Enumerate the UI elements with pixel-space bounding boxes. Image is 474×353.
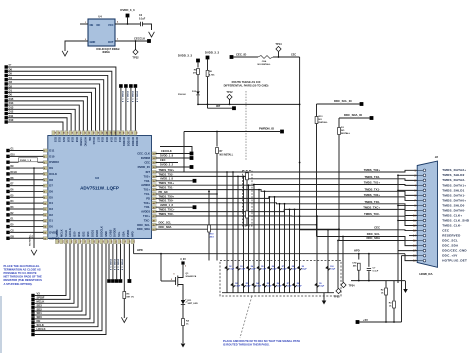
svg-text:PVDD: PVDD — [126, 230, 130, 237]
svg-text:6: 6 — [414, 194, 416, 197]
svg-text:MCLK: MCLK — [59, 229, 63, 237]
svg-text:DSD1: DSD1 — [91, 229, 95, 236]
resistor R8 — [197, 69, 200, 75]
svg-text:AVDD_1_8: AVDD_1_8 — [160, 176, 173, 180]
svg-text:A STUFFING OPTION).: A STUFFING OPTION). — [4, 282, 33, 286]
svg-text:DDC_SDA: DDC_SDA — [159, 225, 172, 229]
svg-text:TMDS_TX1+: TMDS_TX1+ — [364, 181, 381, 185]
svg-text:DVDD_1_8: DVDD_1_8 — [20, 160, 32, 162]
ground (HPD rail) — [403, 289, 408, 293]
svg-text:5: 5 — [44, 174, 45, 176]
svg-text:VCC: VCC — [108, 23, 114, 27]
svg-text:D0: D0 — [9, 93, 13, 97]
resistor R5 887 1% — [123, 244, 125, 292]
svg-text:TMDS_TXC+: TMDS_TXC+ — [159, 208, 175, 212]
svg-text:10: 10 — [44, 203, 46, 205]
svg-text:DDC_SDA: DDC_SDA — [137, 227, 150, 231]
ground (ESD rail) — [323, 293, 325, 298]
svg-text:63: 63 — [115, 240, 117, 242]
wire dashed divider — [245, 91, 247, 160]
svg-text:8: 8 — [44, 192, 45, 194]
svg-text:0.5pF: 0.5pF — [277, 286, 283, 288]
net label CECCLK (IC) — [156, 153, 193, 155]
svg-text:PWRDN_IO: PWRDN_IO — [259, 126, 275, 130]
ground (R1) — [31, 250, 37, 255]
svg-text:D12: D12 — [192, 91, 197, 93]
svg-text:8: 8 — [414, 204, 416, 207]
svg-text:NO INSTALL: NO INSTALL — [258, 63, 272, 66]
svg-text:DVDD2: DVDD2 — [127, 137, 131, 146]
svg-text:DE: DE — [88, 137, 92, 141]
svg-text:R3: R3 — [389, 303, 393, 305]
svg-text:INT: INT — [146, 170, 151, 174]
svg-text:51: 51 — [61, 240, 63, 242]
svg-text:26: 26 — [114, 132, 116, 134]
svg-text:TMDS_TX2+: TMDS_TX2+ — [364, 168, 381, 172]
svg-text:TXC-: TXC- — [144, 218, 150, 222]
svg-text:D10: D10 — [49, 154, 55, 158]
svg-text:1k: 1k — [186, 324, 189, 326]
svg-text:TMDS_DATA1+: TMDS_DATA1+ — [442, 183, 466, 187]
svg-text:TMDS_TX0-: TMDS_TX0- — [159, 199, 174, 203]
svg-text:DVDD5: DVDD5 — [113, 228, 117, 237]
svg-text:DVDD_3_3: DVDD_3_3 — [120, 8, 135, 12]
svg-text:CEC: CEC — [442, 228, 450, 232]
svg-text:0.5pF: 0.5pF — [267, 286, 273, 288]
svg-text:TMDS_TXC-: TMDS_TXC- — [159, 212, 174, 216]
svg-text:D1: D1 — [341, 127, 345, 129]
svg-text:58: 58 — [92, 240, 94, 242]
svg-text:7: 7 — [44, 186, 45, 188]
svg-text:65: 65 — [124, 240, 126, 242]
svg-text:C7: C7 — [373, 268, 377, 270]
svg-text:DDC_SDA_IO: DDC_SDA_IO — [344, 113, 363, 117]
svg-text:ADV7511W_LQFP: ADV7511W_LQFP — [80, 186, 119, 191]
transistor Q1 — [160, 254, 162, 281]
wire U4 pin1 OE — [80, 23, 88, 25]
svg-text:DVDD_1_8: DVDD_1_8 — [160, 154, 174, 158]
svg-text:D19: D19 — [71, 137, 75, 142]
svg-text:0.5pF: 0.5pF — [319, 286, 325, 288]
svg-text:61: 61 — [106, 240, 108, 242]
svg-text:0: 0 — [173, 274, 175, 276]
svg-text:DVDD_1_8: DVDD_1_8 — [113, 259, 115, 271]
resistor R7 NO INSTALL — [216, 132, 218, 147]
svg-text:25: 25 — [118, 132, 120, 134]
svg-text:TP32: TP32 — [132, 56, 139, 60]
svg-text:29: 29 — [101, 132, 103, 134]
svg-text:DCLK: DCLK — [49, 172, 57, 176]
ground (C2) — [149, 32, 155, 37]
wire CEC vertical — [299, 57, 301, 230]
svg-text:DVDD_1_8: DVDD_1_8 — [131, 91, 133, 103]
svg-text:D9: D9 — [49, 166, 53, 170]
svg-text:TMDS_CLK_SHD: TMDS_CLK_SHD — [442, 218, 470, 222]
LED D11 SMT_LED — [182, 291, 184, 300]
net label AVDD_1_8 b — [156, 206, 194, 208]
svg-text:NO INSTALL: NO INSTALL — [29, 233, 32, 246]
svg-text:D5: D5 — [9, 72, 13, 76]
svg-text:RESERVED: RESERVED — [442, 233, 461, 237]
svg-text:INSTALL: INSTALL — [319, 121, 329, 124]
svg-text:+5V: +5V — [363, 318, 368, 322]
svg-text:27: 27 — [109, 132, 111, 134]
svg-text:16: 16 — [413, 245, 416, 248]
svg-text:37: 37 — [153, 172, 155, 174]
svg-text:16: 16 — [44, 238, 46, 240]
svg-text:2: 2 — [44, 156, 45, 158]
svg-text:CH4: CH4 — [262, 60, 267, 63]
test point TP12 — [229, 100, 231, 105]
net label DVDD_2_2 — [156, 166, 191, 168]
svg-text:TMDS_TX0-: TMDS_TX0- — [364, 200, 380, 204]
svg-text:38: 38 — [153, 177, 155, 179]
svg-text:57: 57 — [88, 240, 90, 242]
svg-text:0.5pF: 0.5pF — [282, 269, 288, 271]
svg-text:DDC_SDA: DDC_SDA — [442, 244, 459, 248]
svg-text:33: 33 — [153, 154, 155, 156]
svg-text:0.5pF: 0.5pF — [240, 269, 246, 271]
svg-text:0.5pF: 0.5pF — [330, 269, 336, 271]
svg-text:23: 23 — [126, 132, 128, 134]
resistor R4 1k — [182, 319, 185, 326]
svg-text:45: 45 — [153, 206, 155, 209]
svg-text:SDA: SDA — [122, 231, 126, 237]
svg-text:3_3V: 3_3V — [180, 258, 186, 261]
svg-text:D11: D11 — [9, 114, 14, 118]
svg-text:D12: D12 — [9, 110, 14, 114]
svg-text:TMDS_TX0+: TMDS_TX0+ — [364, 193, 381, 197]
svg-text:1: 1 — [414, 169, 416, 172]
svg-text:AVDD_1_8: AVDD_1_8 — [160, 203, 173, 207]
svg-text:DDC_+5V: DDC_+5V — [442, 254, 457, 258]
svg-text:U3: U3 — [95, 176, 99, 180]
svg-text:0.5pF: 0.5pF — [302, 269, 308, 271]
svg-text:D6: D6 — [49, 189, 53, 193]
wire RESERVED pin stub — [409, 235, 417, 237]
svg-text:DIFFERENTIAL PAIRS (50 TO GND: DIFFERENTIAL PAIRS (50 TO GND) — [224, 84, 269, 88]
svg-text:5: 5 — [414, 189, 416, 192]
svg-text:TMDS_TX1-: TMDS_TX1- — [159, 186, 174, 190]
svg-text:D5: D5 — [49, 195, 53, 199]
svg-text:CECCLK: CECCLK — [161, 149, 172, 153]
svg-text:D10: D10 — [9, 118, 14, 122]
svg-text:DVLSH: DVLSH — [178, 94, 186, 96]
svg-text:2: 2 — [185, 266, 187, 268]
svg-text:11: 11 — [44, 209, 46, 211]
svg-text:3: 3 — [414, 179, 416, 182]
svg-text:52: 52 — [66, 240, 68, 242]
ground (U4 GND) — [62, 51, 68, 56]
svg-text:DDC_SCL: DDC_SCL — [442, 238, 458, 242]
svg-text:TXC+: TXC+ — [143, 214, 150, 218]
svg-text:D15: D15 — [9, 97, 14, 101]
resistor R3 2k — [393, 281, 395, 301]
wire U4 VCC — [115, 23, 140, 25]
svg-text:D10: D10 — [11, 154, 16, 156]
wire TMDS_TX0+ — [156, 197, 418, 201]
svg-text:DVDD3: DVDD3 — [49, 160, 59, 164]
svg-text:7: 7 — [414, 199, 416, 202]
svg-text:32: 32 — [88, 132, 90, 134]
svg-text:TP34: TP34 — [349, 285, 356, 288]
svg-text:15: 15 — [413, 240, 416, 243]
svg-text:2: 2 — [414, 174, 416, 177]
svg-text:DDC_SCL_IO: DDC_SCL_IO — [334, 99, 353, 103]
svg-text:GND: GND — [90, 40, 96, 44]
svg-text:TMDS_TXC+: TMDS_TXC+ — [363, 205, 380, 209]
svg-text:22: 22 — [131, 132, 133, 134]
svg-text:R6: R6 — [209, 71, 213, 73]
test point TP14 — [278, 52, 280, 57]
svg-text:I2S1: I2S1 — [77, 231, 81, 237]
svg-text:12: 12 — [413, 225, 416, 228]
svg-text:887 1%: 887 1% — [127, 296, 134, 298]
wire DDC_SCL row — [156, 224, 317, 226]
resistor R10 49.9 (dashed box pair) — [243, 171, 252, 227]
svg-text:35: 35 — [75, 132, 77, 134]
svg-text:PLACE THE 49.9 PARALLEL: PLACE THE 49.9 PARALLEL — [4, 264, 40, 268]
wire TMDS_TX1+ — [156, 184, 418, 187]
svg-text:I2S2: I2S2 — [82, 231, 86, 237]
svg-text:56: 56 — [84, 240, 86, 242]
wire TMDS_TX1- — [156, 190, 418, 196]
svg-text:TERMINATION AS CLOSE AS: TERMINATION AS CLOSE AS — [4, 268, 41, 272]
net stub CEC_ID — [230, 55, 234, 59]
svg-text:49k: 49k — [353, 264, 357, 267]
svg-text:R13: R13 — [319, 116, 324, 118]
svg-text:1: 1 — [44, 151, 45, 153]
svg-text:43: 43 — [153, 198, 155, 201]
sheet border — [0, 296, 2, 353]
svg-text:D15: D15 — [105, 137, 109, 142]
svg-text:TMDS_CLK+: TMDS_CLK+ — [442, 213, 462, 217]
svg-text:SCL: SCL — [117, 231, 121, 237]
svg-text:TP12: TP12 — [226, 90, 233, 94]
svg-text:13: 13 — [413, 230, 416, 233]
svg-text:50: 50 — [153, 229, 155, 231]
svg-text:TP33: TP33 — [334, 296, 341, 299]
svg-text:CEC: CEC — [291, 54, 296, 57]
svg-text:D14: D14 — [109, 137, 113, 142]
wire ESD drop pair TMDS_TX0- — [279, 204, 281, 293]
svg-text:INT: INT — [216, 104, 221, 108]
svg-text:J2: J2 — [435, 155, 439, 159]
svg-text:CEC: CEC — [160, 158, 166, 162]
wire U4 GND to ground — [65, 41, 88, 51]
svg-text:30: 30 — [96, 132, 98, 134]
svg-text:CVBS: CVBS — [108, 229, 112, 236]
svg-text:POSSIBLE TO U3. ROUTE: POSSIBLE TO U3. ROUTE — [4, 271, 37, 275]
svg-text:D1: D1 — [9, 88, 13, 92]
svg-text:0.5pF: 0.5pF — [292, 269, 298, 271]
svg-text:TX0+: TX0+ — [144, 201, 151, 205]
svg-text:TMDS_DATA2-: TMDS_DATA2- — [442, 178, 465, 182]
svg-text:TX2-: TX2- — [144, 179, 150, 183]
svg-text:0.5pF: 0.5pF — [261, 269, 267, 271]
svg-text:DVDD4: DVDD4 — [135, 137, 139, 146]
svg-text:36: 36 — [153, 167, 155, 169]
svg-text:DVDD_1_8: DVDD_1_8 — [135, 91, 137, 103]
svg-text:67: 67 — [132, 240, 134, 242]
svg-text:SMT_LED: SMT_LED — [188, 303, 199, 305]
svg-text:Q1: Q1 — [186, 273, 190, 275]
svg-text:KEPMC: KEPMC — [49, 236, 59, 240]
svg-text:TX1-: TX1- — [144, 192, 150, 196]
note ESD routing leader — [240, 296, 252, 338]
wire ESD drop pair TMDS_TXC- — [299, 216, 301, 293]
svg-text:DDC_SCL: DDC_SCL — [137, 223, 150, 227]
svg-text:DVDD8: DVDD8 — [141, 156, 151, 160]
svg-text:CECCLK: CECCLK — [134, 37, 145, 41]
svg-text:6: 6 — [44, 180, 45, 182]
svg-text:IS ROUTED THROUGH THEIR PADS.: IS ROUTED THROUGH THEIR PADS. — [223, 343, 270, 347]
svg-text:28: 28 — [105, 132, 107, 134]
svg-text:I2S3: I2S3 — [86, 231, 90, 237]
wire TMDS_TX2+ — [156, 170, 418, 172]
wire U4 OUT to CECCLK — [115, 40, 148, 42]
svg-text:55: 55 — [79, 240, 81, 242]
svg-text:3: 3 — [44, 162, 45, 164]
svg-text:D3: D3 — [9, 80, 13, 84]
svg-text:40: 40 — [153, 184, 155, 187]
svg-text:D4: D4 — [9, 76, 13, 80]
IC U3 ADV7511W_LQFP body — [48, 136, 152, 239]
svg-text:14: 14 — [413, 235, 416, 238]
test point TP32 — [135, 41, 137, 50]
svg-text:AVDD2: AVDD2 — [141, 183, 150, 187]
svg-text:DCLK: DCLK — [11, 172, 18, 174]
svg-text:DSD0: DSD0 — [95, 229, 99, 236]
svg-text:53: 53 — [70, 240, 72, 242]
wire ESD drop pair TMDS_TX2+ — [226, 172, 228, 293]
svg-text:R10: R10 — [210, 234, 215, 236]
svg-text:CEC: CEC — [374, 225, 380, 229]
wire gnd stub (rail) — [397, 281, 399, 283]
svg-text:D7: D7 — [49, 184, 53, 188]
ground (R4) — [181, 344, 186, 348]
svg-text:D18: D18 — [75, 137, 79, 142]
svg-text:R4: R4 — [186, 320, 190, 323]
svg-text:DVDD_3_3: DVDD_3_3 — [178, 54, 193, 58]
svg-text:4: 4 — [414, 184, 416, 187]
svg-text:PLACE AND ROUTE D2 TO D10 SO T: PLACE AND ROUTE D2 TO D10 SO THAT THE SI… — [223, 339, 300, 343]
svg-text:0.5pF: 0.5pF — [256, 286, 262, 288]
svg-text:NO INSTALL: NO INSTALL — [220, 154, 234, 157]
resistor R13 NO INSTALL — [315, 117, 318, 124]
wire ESD drop pair TMDS_TXC+ — [289, 209, 291, 292]
svg-text:TMDS_SHLD1: TMDS_SHLD1 — [442, 188, 464, 192]
svg-text:21: 21 — [135, 132, 137, 134]
svg-text:TMDS_DATA2+: TMDS_DATA2+ — [442, 168, 466, 172]
wire PD row — [156, 193, 218, 195]
svg-text:12: 12 — [44, 215, 46, 217]
svg-text:CS: CS — [11, 230, 15, 232]
svg-text:TMDS_DATA0+: TMDS_DATA0+ — [442, 198, 466, 202]
wire DDC_+5V pin — [402, 255, 418, 257]
wire shield pins to gnd rail — [398, 174, 417, 176]
wire ESD drop pair TMDS_TX0+ — [269, 197, 271, 293]
svg-text:TMDS_SHLD0: TMDS_SHLD0 — [442, 203, 464, 207]
audio input stubs SPDIF/MCLK/SCLK/LRCLK (11 wires) — [31, 294, 34, 297]
svg-text:60: 60 — [101, 240, 103, 242]
svg-text:ROUTE THESE AS 100: ROUTE THESE AS 100 — [232, 80, 261, 84]
svg-text:TMDS_TX1-: TMDS_TX1- — [364, 187, 380, 191]
svg-text:DVDD3: DVDD3 — [131, 137, 135, 146]
svg-text:TX1+: TX1+ — [144, 188, 151, 192]
svg-text:TMDS_DATA0-: TMDS_DATA0- — [442, 208, 465, 212]
svg-text:62: 62 — [110, 240, 112, 242]
svg-text:42: 42 — [153, 193, 155, 196]
oscillator U4 — [88, 19, 115, 46]
capacitor C7 0.1uF — [368, 253, 370, 255]
svg-text:DCLK: DCLK — [92, 137, 96, 144]
svg-text:4: 4 — [117, 21, 119, 24]
svg-text:TMDS_TX2-: TMDS_TX2- — [364, 175, 380, 179]
svg-text:2: 2 — [117, 39, 119, 41]
svg-text:4.75k: 4.75k — [209, 74, 215, 77]
svg-text:DDC_SDA: DDC_SDA — [366, 236, 380, 240]
svg-text:9: 9 — [44, 197, 45, 199]
svg-text:NO: NO — [319, 119, 323, 121]
svg-text:TMDS_CLK-: TMDS_CLK- — [442, 223, 461, 227]
svg-text:48: 48 — [153, 220, 155, 223]
wire CEC row — [300, 229, 418, 232]
svg-text:41: 41 — [153, 189, 155, 192]
svg-text:TP14: TP14 — [275, 42, 282, 46]
svg-text:LRCLK: LRCLK — [68, 228, 72, 237]
svg-text:40: 40 — [53, 132, 56, 134]
svg-text:R2: R2 — [381, 290, 385, 292]
svg-text:TX0-: TX0- — [144, 205, 150, 209]
svg-text:SCLK: SCLK — [64, 230, 68, 237]
svg-text:35: 35 — [153, 163, 155, 165]
left input stubs (16 nets into IC left pins) — [6, 149, 9, 152]
wire INT rail — [198, 103, 300, 105]
wire TMDS_TX0- — [156, 203, 418, 211]
svg-text:DVDD1: DVDD1 — [122, 137, 126, 146]
svg-text:0.5pF: 0.5pF — [272, 269, 278, 271]
wire DDC_SDA row — [156, 228, 340, 230]
svg-text:2k: 2k — [389, 305, 392, 307]
svg-text:D1: D1 — [49, 219, 53, 223]
power stubs DVDD (4 verticals into IC top) — [119, 84, 123, 88]
svg-text:D20: D20 — [66, 137, 70, 142]
svg-text:10: 10 — [413, 214, 416, 217]
resistor R1 NO INSTALL (DCLK pulldown) — [33, 167, 35, 169]
ferrite CH4 NO INSTALL — [258, 56, 273, 59]
svg-text:TMDS_TXC-: TMDS_TXC- — [364, 212, 380, 216]
svg-text:D3: D3 — [49, 207, 53, 211]
svg-text:D21: D21 — [62, 137, 66, 142]
wire PD join — [216, 193, 218, 195]
svg-text:0.5pF: 0.5pF — [246, 286, 252, 288]
svg-text:D11: D11 — [188, 300, 193, 302]
svg-text:13: 13 — [44, 221, 46, 223]
diode D12 DLS — [196, 91, 199, 95]
svg-text:39: 39 — [153, 181, 155, 183]
svg-text:D2: D2 — [49, 213, 53, 217]
svg-text:CEC_CLK: CEC_CLK — [137, 152, 150, 156]
svg-text:33: 33 — [83, 132, 85, 134]
svg-text:17: 17 — [413, 250, 416, 253]
svg-text:66: 66 — [128, 240, 130, 242]
svg-text:47: 47 — [153, 215, 155, 218]
svg-text:D17: D17 — [96, 137, 100, 142]
bottom net stubs (5 labelled verticals) — [108, 244, 110, 279]
svg-text:D13: D13 — [9, 105, 14, 109]
svg-text:S1A0917A: S1A0917A — [186, 275, 197, 278]
